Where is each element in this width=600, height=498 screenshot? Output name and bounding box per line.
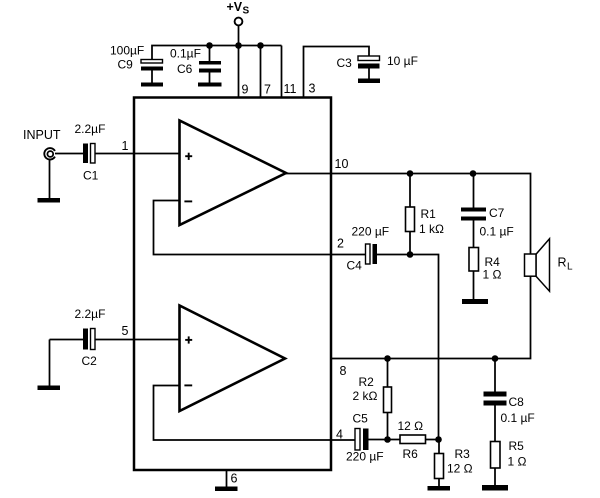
svg-text:C9: C9 [118, 58, 134, 72]
svg-text:12 Ω: 12 Ω [447, 462, 473, 476]
svg-text:R6: R6 [403, 447, 419, 461]
svg-text:1 Ω: 1 Ω [508, 455, 527, 469]
svg-text:220 µF: 220 µF [352, 225, 390, 239]
svg-text:0.1 µF: 0.1 µF [480, 225, 514, 239]
svg-text:+V: +V [227, 0, 243, 14]
svg-text:R3: R3 [455, 447, 471, 461]
svg-text:R5: R5 [509, 439, 525, 453]
svg-text:10 µF: 10 µF [387, 54, 418, 68]
svg-text:C6: C6 [177, 62, 193, 76]
svg-text:C1: C1 [83, 169, 99, 183]
svg-text:3: 3 [309, 82, 316, 96]
svg-text:C7: C7 [489, 206, 505, 220]
svg-text:C5: C5 [353, 412, 369, 426]
svg-text:0.1µF: 0.1µF [170, 47, 201, 61]
svg-text:11: 11 [284, 82, 297, 96]
svg-text:6: 6 [231, 472, 238, 486]
svg-text:9: 9 [242, 83, 249, 97]
svg-text:R2: R2 [359, 375, 375, 389]
svg-text:1 Ω: 1 Ω [483, 268, 502, 282]
svg-text:INPUT: INPUT [23, 128, 61, 142]
svg-text:2.2µF: 2.2µF [75, 307, 106, 321]
svg-text:12 Ω: 12 Ω [398, 419, 424, 433]
svg-text:8: 8 [340, 364, 347, 378]
svg-text:C2: C2 [82, 354, 98, 368]
svg-text:100µF: 100µF [110, 44, 144, 58]
svg-text:1: 1 [122, 139, 129, 153]
svg-text:2: 2 [337, 237, 344, 251]
svg-text:C4: C4 [347, 259, 363, 273]
svg-text:220 µF: 220 µF [346, 450, 384, 464]
svg-text:S: S [243, 6, 250, 17]
svg-text:1 kΩ: 1 kΩ [419, 222, 444, 236]
svg-text:C3: C3 [337, 56, 353, 70]
svg-text:4: 4 [336, 428, 343, 442]
svg-text:C8: C8 [509, 395, 525, 409]
svg-text:2 kΩ: 2 kΩ [353, 389, 378, 403]
svg-text:L: L [567, 262, 573, 273]
svg-text:R: R [558, 256, 567, 270]
svg-text:2.2µF: 2.2µF [75, 122, 106, 136]
svg-text:7: 7 [264, 83, 271, 97]
svg-text:R1: R1 [421, 207, 437, 221]
svg-text:0.1 µF: 0.1 µF [501, 411, 535, 425]
svg-text:10: 10 [335, 157, 349, 171]
svg-text:5: 5 [122, 324, 129, 338]
